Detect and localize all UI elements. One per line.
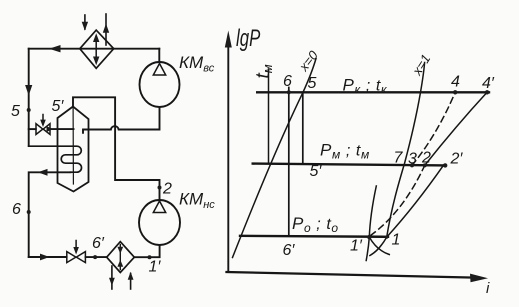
- tm vertical construction line: [268, 69, 270, 164]
- coil outlet wire to point 6: [29, 172, 71, 257]
- arc from 1 down left: [370, 237, 387, 255]
- compressor KMvs: [140, 62, 180, 107]
- flow arrow on top wire (left): [49, 45, 61, 52]
- svg-text:1: 1: [392, 232, 401, 249]
- svg-text:5′: 5′: [52, 98, 65, 115]
- wire: into valve 5: [29, 128, 36, 130]
- node dot 1 chart: [385, 236, 388, 239]
- expansion valve 5-5' bowtie: [36, 124, 43, 135]
- svg-text:5: 5: [308, 75, 317, 92]
- solid line 2-4': [425, 92, 487, 165]
- svg-text:i: i: [486, 280, 490, 297]
- svg-text:КМнс: КМнс: [179, 190, 215, 212]
- node dot point 5: [27, 108, 31, 112]
- evaporator air in line: [130, 274, 132, 290]
- node dot 4': [485, 90, 489, 94]
- svg-text:6: 6: [12, 201, 21, 218]
- svg-text:x=0: x=0: [295, 47, 321, 74]
- condenser inner double arrow: [95, 37, 97, 61]
- wire: bottom line to valve 6': [29, 256, 67, 258]
- flow arrow out of coil (left): [38, 169, 48, 176]
- node dot 2: [423, 163, 427, 167]
- svg-text:3: 3: [408, 151, 417, 168]
- svg-text:1′: 1′: [149, 259, 162, 276]
- svg-text:5: 5: [11, 103, 20, 120]
- svg-text:Pо ; tо: Pо ; tо: [292, 214, 339, 235]
- isobar Pm line: [253, 164, 446, 166]
- solid compression line 1-2': [387, 165, 444, 237]
- node dot 4: [453, 90, 457, 94]
- isobar Po line: [240, 236, 388, 237]
- node dot 1': [148, 255, 152, 259]
- node dot 3: [410, 163, 414, 167]
- node dot 6': [93, 255, 97, 259]
- wire: KMvs suction from vessel (with hop): [83, 107, 160, 133]
- expansion valve 5-5' stem: [42, 115, 44, 125]
- dashed compression 1'-2: [371, 165, 425, 235]
- svg-text:1′: 1′: [350, 238, 363, 255]
- intermediate vessel body: [58, 107, 89, 192]
- construction line 6-6': [288, 88, 290, 236]
- evaporator air out line: [111, 266, 113, 289]
- svg-text:4′: 4′: [482, 75, 495, 92]
- coil inlet wire and coil: [29, 146, 82, 172]
- node dot chart 6: [287, 90, 291, 94]
- flow arrow into vessel: [47, 126, 54, 132]
- svg-text:7: 7: [394, 150, 404, 167]
- svg-text:5′: 5′: [310, 163, 323, 180]
- dashed compression 3-4: [412, 92, 455, 165]
- condenser cooling water outlet line: [105, 14, 107, 45]
- construction line 5-5': [302, 92, 304, 164]
- condenser diamond: [80, 30, 114, 68]
- node dot point 2: [158, 186, 162, 190]
- wire: valve 6' to evaporator: [86, 256, 107, 258]
- wire: condenser outlet top line: [29, 48, 160, 50]
- svg-text:6′: 6′: [92, 235, 105, 252]
- svg-text:lgP: lgP: [236, 25, 260, 52]
- compressor KMns: [139, 200, 180, 245]
- svg-text:2: 2: [162, 181, 172, 198]
- flow arrow down on left wire: [25, 85, 32, 96]
- expansion valve 6' bowtie: [67, 252, 76, 263]
- svg-text:Pм ; tм: Pм ; tм: [320, 141, 370, 162]
- vessel centre line: [72, 108, 74, 185]
- wire: condenser to KMvs compressor: [158, 49, 160, 62]
- svg-text:2′: 2′: [450, 151, 464, 168]
- x=1 saturated vapour curve: [387, 63, 425, 238]
- evaporator inner converging arrows: [119, 245, 121, 270]
- expansion valve 6' stem: [75, 241, 77, 252]
- svg-text:КМвс: КМвс: [179, 53, 215, 75]
- node dot 2': [443, 163, 447, 167]
- svg-text:4: 4: [451, 74, 460, 91]
- saturation curve through 1' (steep): [366, 186, 376, 261]
- svg-text:6′: 6′: [283, 242, 296, 259]
- node dot point 6: [27, 210, 31, 214]
- y axis lg p: [227, 44, 229, 272]
- arc from 1' down right: [369, 237, 389, 254]
- isobar Pk line: [257, 91, 489, 93]
- condenser cooling water inlet line: [84, 15, 86, 29]
- svg-text:x=1: x=1: [409, 52, 434, 79]
- svg-text:6: 6: [283, 73, 292, 90]
- x=0 saturated liquid curve: [233, 59, 317, 258]
- node dot 1' chart: [367, 235, 371, 239]
- evaporator diamond: [107, 242, 135, 273]
- flow arrow on bottom wire: [40, 254, 50, 261]
- wire: left liquid downcomer (5): [28, 49, 30, 146]
- wire: valve 5' into vessel: [50, 128, 73, 130]
- wire: evaporator to KMns suction: [134, 246, 159, 258]
- svg-text:tм: tм: [253, 64, 275, 78]
- x axis i: [227, 272, 475, 278]
- svg-text:Pк ; tк: Pк ; tк: [343, 76, 388, 97]
- wire: KMns discharge to vessel top: [73, 97, 160, 199]
- svg-text:2: 2: [421, 150, 431, 167]
